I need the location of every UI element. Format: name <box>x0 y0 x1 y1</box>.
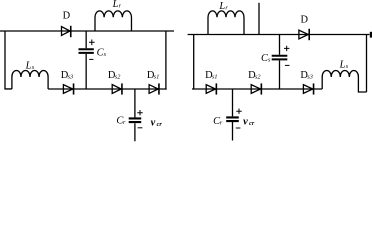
svg-text:L: L <box>339 59 346 70</box>
svg-text:r: r <box>220 120 223 127</box>
svg-text:r: r <box>123 119 126 126</box>
svg-text:r: r <box>225 5 228 12</box>
svg-text:s1: s1 <box>154 73 160 80</box>
svg-text:s: s <box>346 63 349 70</box>
svg-text:L: L <box>218 1 225 12</box>
svg-text:cr: cr <box>249 120 255 127</box>
svg-text:L: L <box>25 60 32 71</box>
svg-text:s2: s2 <box>255 73 261 80</box>
svg-text:L: L <box>112 0 119 10</box>
svg-text:D: D <box>301 15 309 26</box>
svg-text:D: D <box>63 11 71 22</box>
svg-text:r: r <box>119 2 122 9</box>
svg-text:s: s <box>32 64 35 71</box>
svg-text:cr: cr <box>157 121 163 128</box>
svg-text:s3: s3 <box>307 73 313 80</box>
svg-text:s3: s3 <box>68 73 74 80</box>
svg-text:s1: s1 <box>212 73 218 80</box>
svg-text:v: v <box>151 118 156 129</box>
svg-text:s2: s2 <box>115 73 121 80</box>
svg-text:v: v <box>243 116 248 127</box>
svg-text:s: s <box>268 57 271 64</box>
svg-text:s: s <box>104 51 107 58</box>
